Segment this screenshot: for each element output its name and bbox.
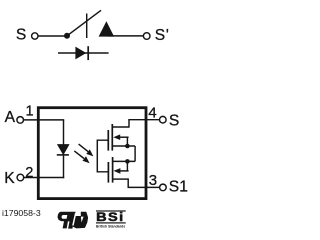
- IC package box: [38, 108, 146, 199]
- Q2 body tail: [126, 161, 128, 171]
- Q2 body stub with arrow: [119, 170, 129, 172]
- light arrow 2: [74, 151, 89, 163]
- Q1 source stub: [112, 145, 135, 147]
- transistor Q2 channel: [112, 157, 114, 183]
- svg-text:A: A: [5, 109, 16, 126]
- terminal circle K: [17, 174, 24, 181]
- svg-text:British Standards: British Standards: [96, 224, 125, 228]
- Q2 source junction dot: [125, 159, 130, 164]
- transistor Q1 gate: [107, 130, 109, 151]
- svg-text:2: 2: [25, 165, 33, 181]
- svg-text:BSi: BSi: [96, 210, 124, 223]
- svg-text:S: S: [169, 113, 179, 130]
- svg-text:K: K: [4, 170, 15, 187]
- LED triangle: [57, 144, 70, 155]
- pin 2 wire LED cathode to K: [24, 177, 64, 179]
- pin 4 wire: [128, 119, 159, 121]
- terminal circle S': [143, 33, 150, 40]
- svg-text:S: S: [16, 27, 26, 44]
- switch blade: [67, 10, 101, 36]
- pin 1 wire A to LED anode: [24, 119, 65, 121]
- BSI logo: [96, 210, 126, 228]
- terminal circle A: [17, 117, 24, 124]
- light arrow 1: [79, 144, 94, 156]
- terminal circle S: [32, 33, 38, 39]
- Q1 source junction dot: [125, 144, 130, 149]
- diode D1 wire: [58, 52, 109, 54]
- wire S to junction: [38, 35, 67, 37]
- common source link: [134, 146, 136, 161]
- Q2 drain dropper to pin 3: [127, 178, 129, 187]
- svg-text:': ': [166, 27, 169, 44]
- terminal circle pin 4: [160, 116, 167, 123]
- Q1 body tail: [126, 137, 128, 146]
- wire wedge to S': [108, 35, 143, 37]
- UL recognized component mark: [58, 212, 89, 229]
- pin 3 wire: [128, 186, 160, 188]
- svg-text:S1: S1: [169, 179, 188, 196]
- actuator tick across blade: [86, 14, 88, 39]
- Q1 drain stub: [112, 126, 129, 128]
- svg-text:4: 4: [148, 104, 156, 121]
- contact wedge triangle: [99, 21, 115, 36]
- junction dot (switch pivot): [64, 33, 70, 39]
- LED cathode bar: [57, 154, 69, 156]
- svg-text:1: 1: [26, 104, 34, 120]
- transistor Q2 source stub: [113, 160, 136, 162]
- transistor Q1 channel: [111, 124, 113, 151]
- LED anode lead: [63, 120, 65, 145]
- diode D1 cathode bar: [87, 46, 89, 60]
- Q1 body stub with arrow: [119, 136, 129, 138]
- svg-text:S: S: [155, 27, 165, 44]
- terminal circle pin 3: [160, 184, 167, 191]
- svg-text:3: 3: [149, 172, 157, 189]
- diode D1 triangle (anode): [75, 47, 86, 60]
- LED cathode lead: [63, 155, 65, 178]
- transistor Q2 gate: [107, 162, 109, 183]
- gate rail bracket: [97, 140, 108, 172]
- Q2 drain stub: [113, 178, 129, 180]
- Q1 drain riser to pin 4: [128, 120, 130, 128]
- svg-text:i179058-3: i179058-3: [2, 208, 41, 218]
